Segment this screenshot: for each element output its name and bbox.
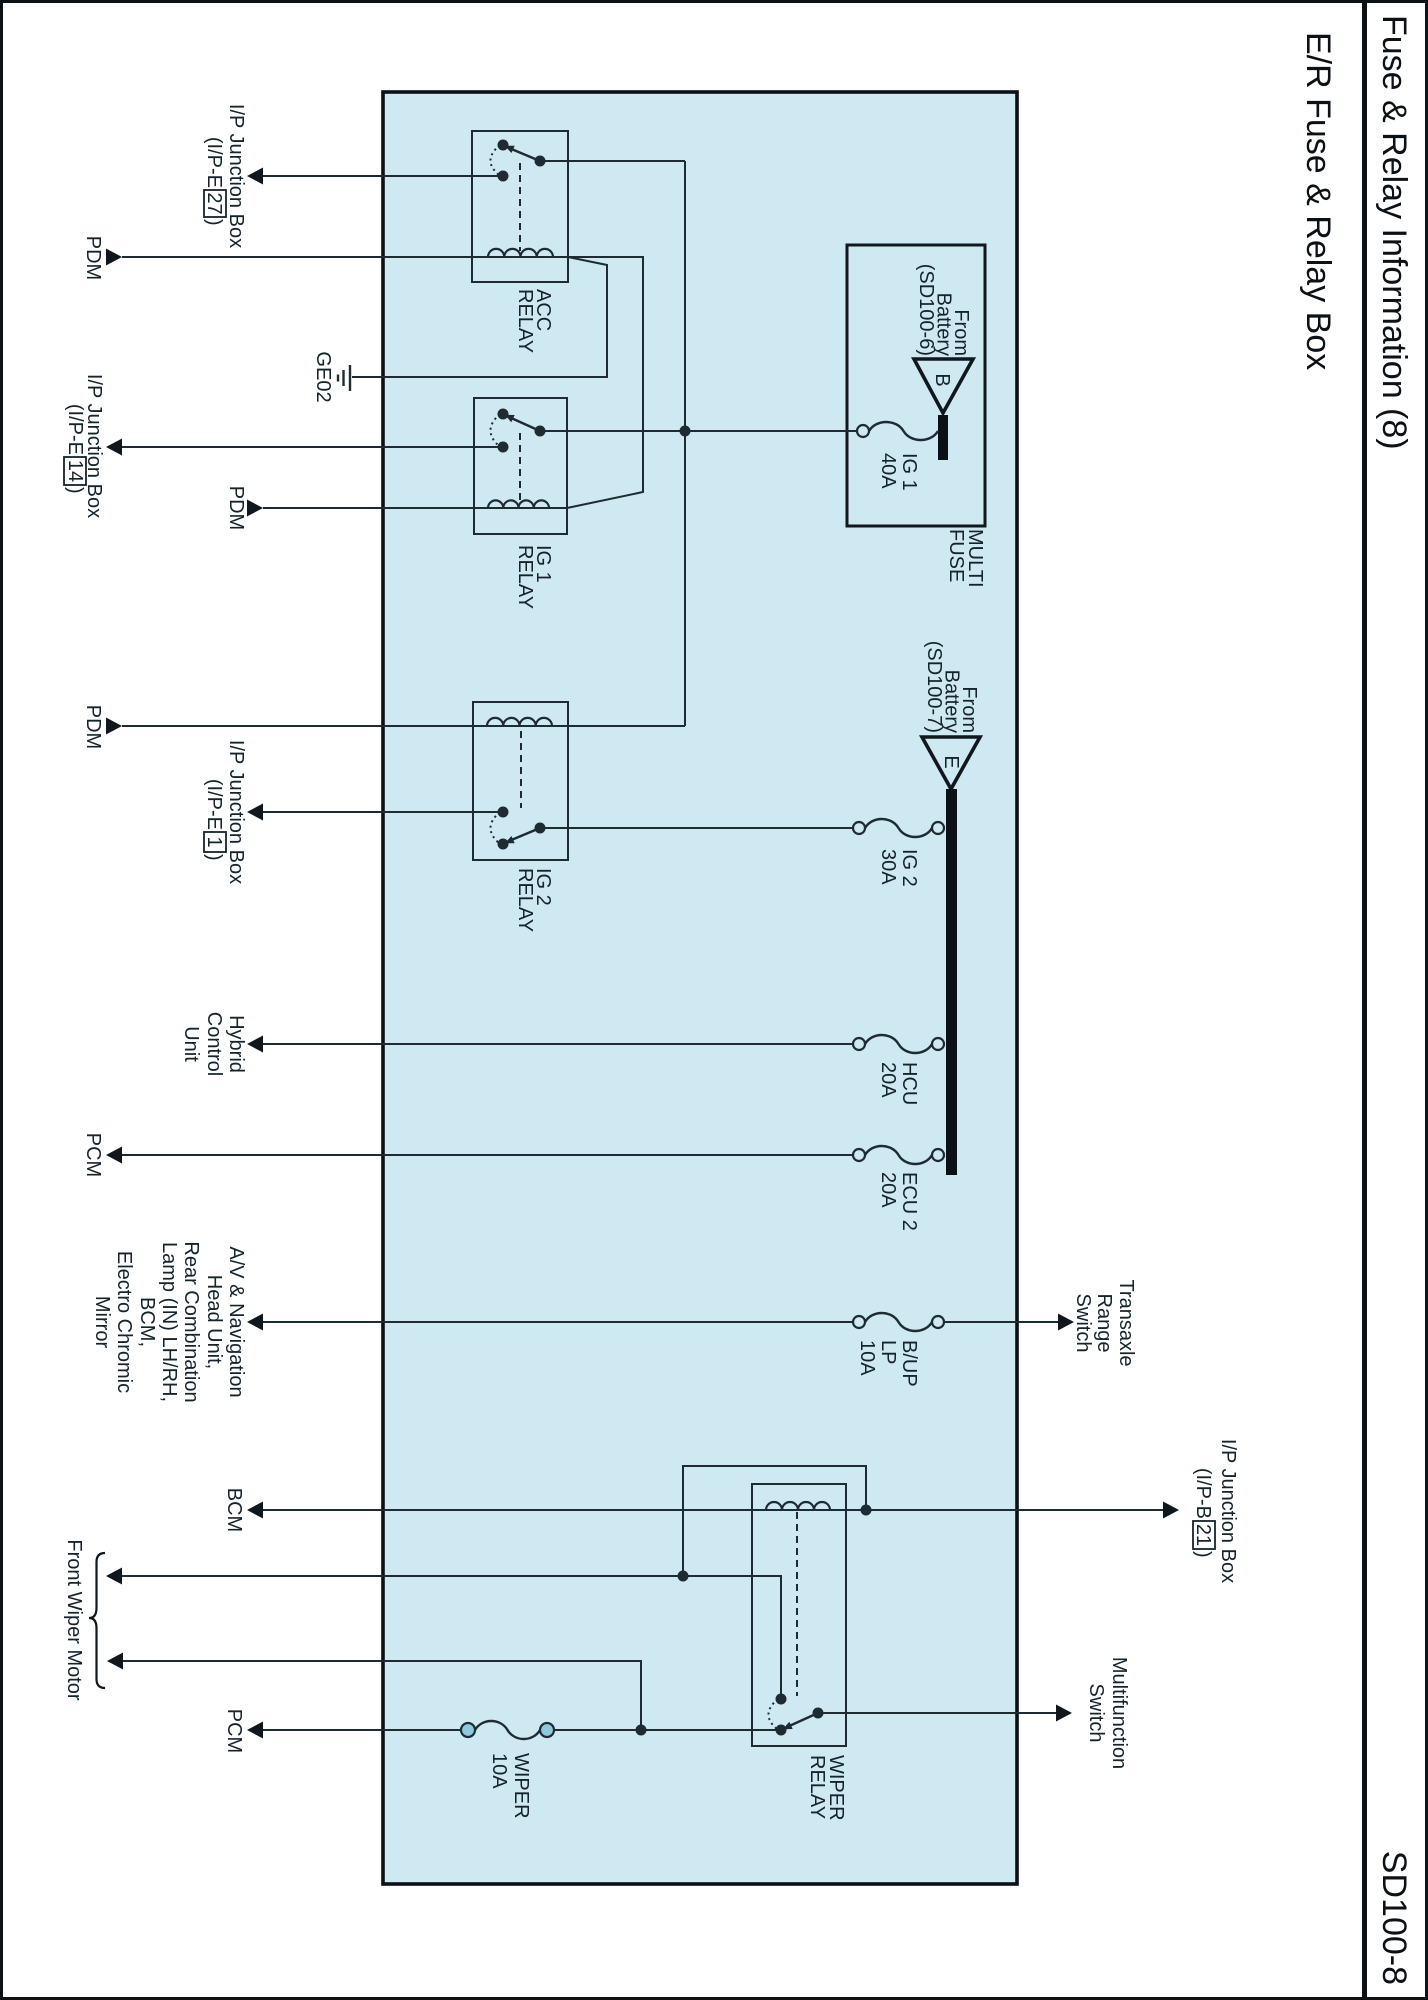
WIPER relay switch xyxy=(787,1713,818,1727)
svg-text:Range: Range xyxy=(1093,1294,1115,1353)
ACC relay box xyxy=(472,131,568,282)
svg-text:Switch: Switch xyxy=(1072,1294,1094,1353)
svg-text:Mirror: Mirror xyxy=(91,1296,113,1349)
wire: IG2 coil to PDM xyxy=(122,725,473,727)
svg-text:I/P Junction Box: I/P Junction Box xyxy=(225,740,247,884)
svg-text:20A: 20A xyxy=(877,1172,899,1208)
IG 2 relay mech link (dashed) xyxy=(520,731,522,808)
svg-text:Fuse & Relay Information (8): Fuse & Relay Information (8) xyxy=(1375,15,1413,450)
svg-text:PCM: PCM xyxy=(82,1133,104,1177)
E/R fuse & relay box (blue enclosure) xyxy=(383,92,1017,1884)
svg-text:E/R Fuse & Relay Box: E/R Fuse & Relay Box xyxy=(1299,32,1337,370)
fuse IG 2 30A xyxy=(865,819,932,837)
svg-text:WIPER: WIPER xyxy=(510,1753,532,1819)
svg-text:ECU 2: ECU 2 xyxy=(898,1172,920,1231)
svg-text:A/V & Navigation: A/V & Navigation xyxy=(225,1246,247,1397)
arrow to A/V & Navigation etc xyxy=(247,1314,263,1331)
junction dot (wiper fuse / wire2) xyxy=(636,1725,647,1736)
arrow to BCM xyxy=(247,1502,263,1519)
wire: IG1 fuse to node xyxy=(685,430,857,432)
svg-text:Hybrid: Hybrid xyxy=(225,1015,247,1073)
svg-text:PDM: PDM xyxy=(82,236,104,280)
svg-text:(I/P-B: (I/P-B xyxy=(1192,1468,1214,1519)
fuse ECU 2 20A xyxy=(865,1146,932,1164)
arrow to PCM (wiper) xyxy=(247,1722,263,1739)
svg-text:BCM: BCM xyxy=(223,1488,245,1532)
junction node dot (IG1 fuse output) xyxy=(680,426,691,437)
wire: WIPER coil node riser xyxy=(846,1509,866,1511)
arrow to PCM (ECU 2) xyxy=(106,1147,122,1164)
svg-text:14: 14 xyxy=(64,460,86,482)
svg-text:1: 1 xyxy=(203,836,225,847)
svg-text:(SD100-7): (SD100-7) xyxy=(923,641,945,733)
fuse HCU 20A xyxy=(865,1035,932,1053)
arrow to I/P Junction Box (I/P-E 14) xyxy=(106,439,122,456)
arrow to Hybrid Control Unit xyxy=(247,1036,263,1053)
wire: B/UP fuse up to Transaxle Range Switch xyxy=(944,1321,1058,1323)
wire: coil node to I/P-B 21 xyxy=(866,1509,1163,1511)
svg-text:10A: 10A xyxy=(488,1753,510,1789)
arrow to Multifunction Switch xyxy=(1056,1705,1072,1722)
arrow to I/P Junction Box (I/P-B 21) xyxy=(1163,1502,1179,1519)
svg-text:(I/P-E: (I/P-E xyxy=(64,404,86,455)
svg-text:20A: 20A xyxy=(877,1062,899,1098)
junction dot (wire1 / I/P-B branch) xyxy=(678,1571,689,1582)
arrow from PDM (IG2) xyxy=(106,718,122,735)
svg-text:): ) xyxy=(203,854,225,861)
wire: ground run from ACC coil node xyxy=(352,257,607,377)
svg-text:Front Wiper Motor: Front Wiper Motor xyxy=(63,1539,85,1700)
svg-text:SD100-8: SD100-8 xyxy=(1375,1851,1413,1985)
svg-text:Control: Control xyxy=(203,1012,225,1076)
svg-text:(SD100-6): (SD100-6) xyxy=(915,264,937,356)
fuse WIPER 10A xyxy=(475,1721,540,1739)
wire: WIPER switch contact to PCM via WIPER fuse xyxy=(555,1729,776,1731)
wire: ACC contact to I/P-E 27 xyxy=(262,175,498,177)
svg-text:PDM: PDM xyxy=(225,486,247,530)
svg-text:B/UP: B/UP xyxy=(898,1340,920,1387)
WIPER relay coil leads xyxy=(830,1509,846,1511)
svg-text:IG 2: IG 2 xyxy=(898,849,920,887)
svg-text:PDM: PDM xyxy=(82,705,104,749)
svg-text:30A: 30A xyxy=(877,849,899,885)
svg-text:Head Unit,: Head Unit, xyxy=(203,1275,225,1370)
wire: IG2 fuse to relay contact xyxy=(545,827,853,829)
IG 1 relay coil xyxy=(488,507,549,509)
wire: ECU2 fuse to PCM xyxy=(122,1154,853,1156)
IG 2 relay switch xyxy=(509,828,540,841)
svg-text:IG 1: IG 1 xyxy=(898,453,920,491)
svg-text:): ) xyxy=(64,487,86,494)
wire: front wiper motor wire 2 xyxy=(123,1661,641,1730)
svg-text:Multifunction: Multifunction xyxy=(1108,1657,1130,1769)
ACC relay mech link (dashed) xyxy=(519,163,521,251)
wire: coil node branch to front wiper wire xyxy=(683,1466,866,1576)
svg-text:Unit: Unit xyxy=(180,1026,202,1062)
svg-text:RELAY: RELAY xyxy=(514,868,536,932)
svg-text:FUSE: FUSE xyxy=(945,529,967,582)
wire: IG1 coil to PDM xyxy=(263,507,488,509)
ACC relay coil lead xyxy=(553,256,568,258)
IG 2 relay coil leads xyxy=(552,725,568,727)
arrow to front wiper motor (2) xyxy=(107,1653,123,1670)
wire: WIPER fuse to PCM xyxy=(262,1729,461,1731)
svg-text:B: B xyxy=(931,373,953,386)
WIPER relay coil xyxy=(766,1509,830,1511)
svg-text:E: E xyxy=(940,755,962,768)
svg-text:(I/P-E: (I/P-E xyxy=(203,779,225,830)
wire: ACC relay contact riser xyxy=(545,160,685,162)
arrow from PDM (IG1) xyxy=(247,500,263,517)
wire: front wiper motor wire 1 xyxy=(122,1576,781,1699)
svg-text:RELAY: RELAY xyxy=(806,1755,828,1819)
wire: multifunction switch from common contact xyxy=(823,1712,1056,1714)
IG 2 relay coil xyxy=(487,725,552,727)
svg-text:Switch: Switch xyxy=(1085,1684,1107,1743)
arrow to I/P Junction Box (I/P-E 1) xyxy=(247,804,263,821)
arrow to I/P Junction Box (I/P-E 27) xyxy=(247,168,263,185)
svg-text:I/P Junction Box: I/P Junction Box xyxy=(225,104,247,248)
svg-text:RELAY: RELAY xyxy=(514,545,536,609)
svg-text:): ) xyxy=(203,219,225,226)
wire: HCU fuse to Hybrid Control Unit xyxy=(262,1043,853,1045)
wire: WIPER coil to BCM xyxy=(262,1509,752,1511)
arrow to Transaxle Range Switch xyxy=(1058,1314,1074,1331)
svg-text:PCM: PCM xyxy=(223,1709,245,1753)
svg-text:): ) xyxy=(1192,1551,1214,1558)
IG 1 relay coil lead xyxy=(549,507,567,509)
svg-text:I/P Junction Box: I/P Junction Box xyxy=(1217,1439,1239,1583)
IG 1 relay mech link (dashed) xyxy=(519,433,521,501)
svg-text:BCM,: BCM, xyxy=(136,1297,158,1347)
wire: IG1 relay contact riser xyxy=(545,430,680,432)
IG 1 relay box xyxy=(474,398,567,534)
svg-text:27: 27 xyxy=(203,192,225,214)
title bar separator line xyxy=(1362,0,1367,2000)
svg-text:Rear Combination: Rear Combination xyxy=(180,1241,202,1402)
ACC relay switch xyxy=(509,148,540,161)
bus bar (E) xyxy=(946,789,957,1175)
wire: B/UP fuse down to A/V etc xyxy=(262,1321,853,1323)
ground symbol GE02 xyxy=(349,365,351,391)
svg-text:RELAY: RELAY xyxy=(514,289,536,353)
svg-text:LP: LP xyxy=(877,1340,899,1364)
fuse IG 1 40A xyxy=(869,422,938,440)
svg-text:Lamp (IN) LH/RH,: Lamp (IN) LH/RH, xyxy=(158,1242,180,1402)
wire: IG2 contact to I/P-E 1 xyxy=(262,811,498,813)
battery feed triangle B xyxy=(914,359,973,413)
MULTI FUSE box xyxy=(847,245,985,526)
arrow from PDM (ACC) xyxy=(106,249,122,266)
fuse B/UP LP 10A xyxy=(865,1313,932,1331)
junction dot (WIPER coil node) xyxy=(861,1505,872,1516)
WIPER relay box xyxy=(752,1484,846,1746)
battery feed triangle E xyxy=(922,737,980,789)
svg-text:GE02: GE02 xyxy=(312,351,334,402)
svg-text:(I/P-E: (I/P-E xyxy=(203,137,225,188)
svg-text:Transaxle: Transaxle xyxy=(1115,1279,1137,1366)
WIPER relay mech link (dashed) xyxy=(796,1512,798,1696)
wire: node bus from ACC riser to IG2 coil corner xyxy=(684,161,686,726)
svg-text:Electro Chromic: Electro Chromic xyxy=(113,1251,135,1393)
IG 1 relay switch xyxy=(509,417,540,431)
wire: IG1 contact to I/P-E 14 xyxy=(122,446,498,448)
svg-text:HCU: HCU xyxy=(898,1062,920,1105)
wire: ACC coil feed up + over to IG1 coil xyxy=(567,257,643,508)
svg-text:21: 21 xyxy=(1192,1524,1214,1546)
svg-text:40A: 40A xyxy=(877,453,899,489)
ACC relay coil xyxy=(488,256,553,258)
IG 2 relay box xyxy=(473,702,568,860)
brace for front wiper motor xyxy=(89,1553,105,1688)
bus bar stub (B) xyxy=(938,415,948,460)
arrow to front wiper motor (1) xyxy=(106,1568,122,1585)
svg-text:10A: 10A xyxy=(856,1340,878,1376)
wire: ACC coil to PDM xyxy=(122,256,488,258)
wire: down to IG2 coil xyxy=(568,725,685,727)
